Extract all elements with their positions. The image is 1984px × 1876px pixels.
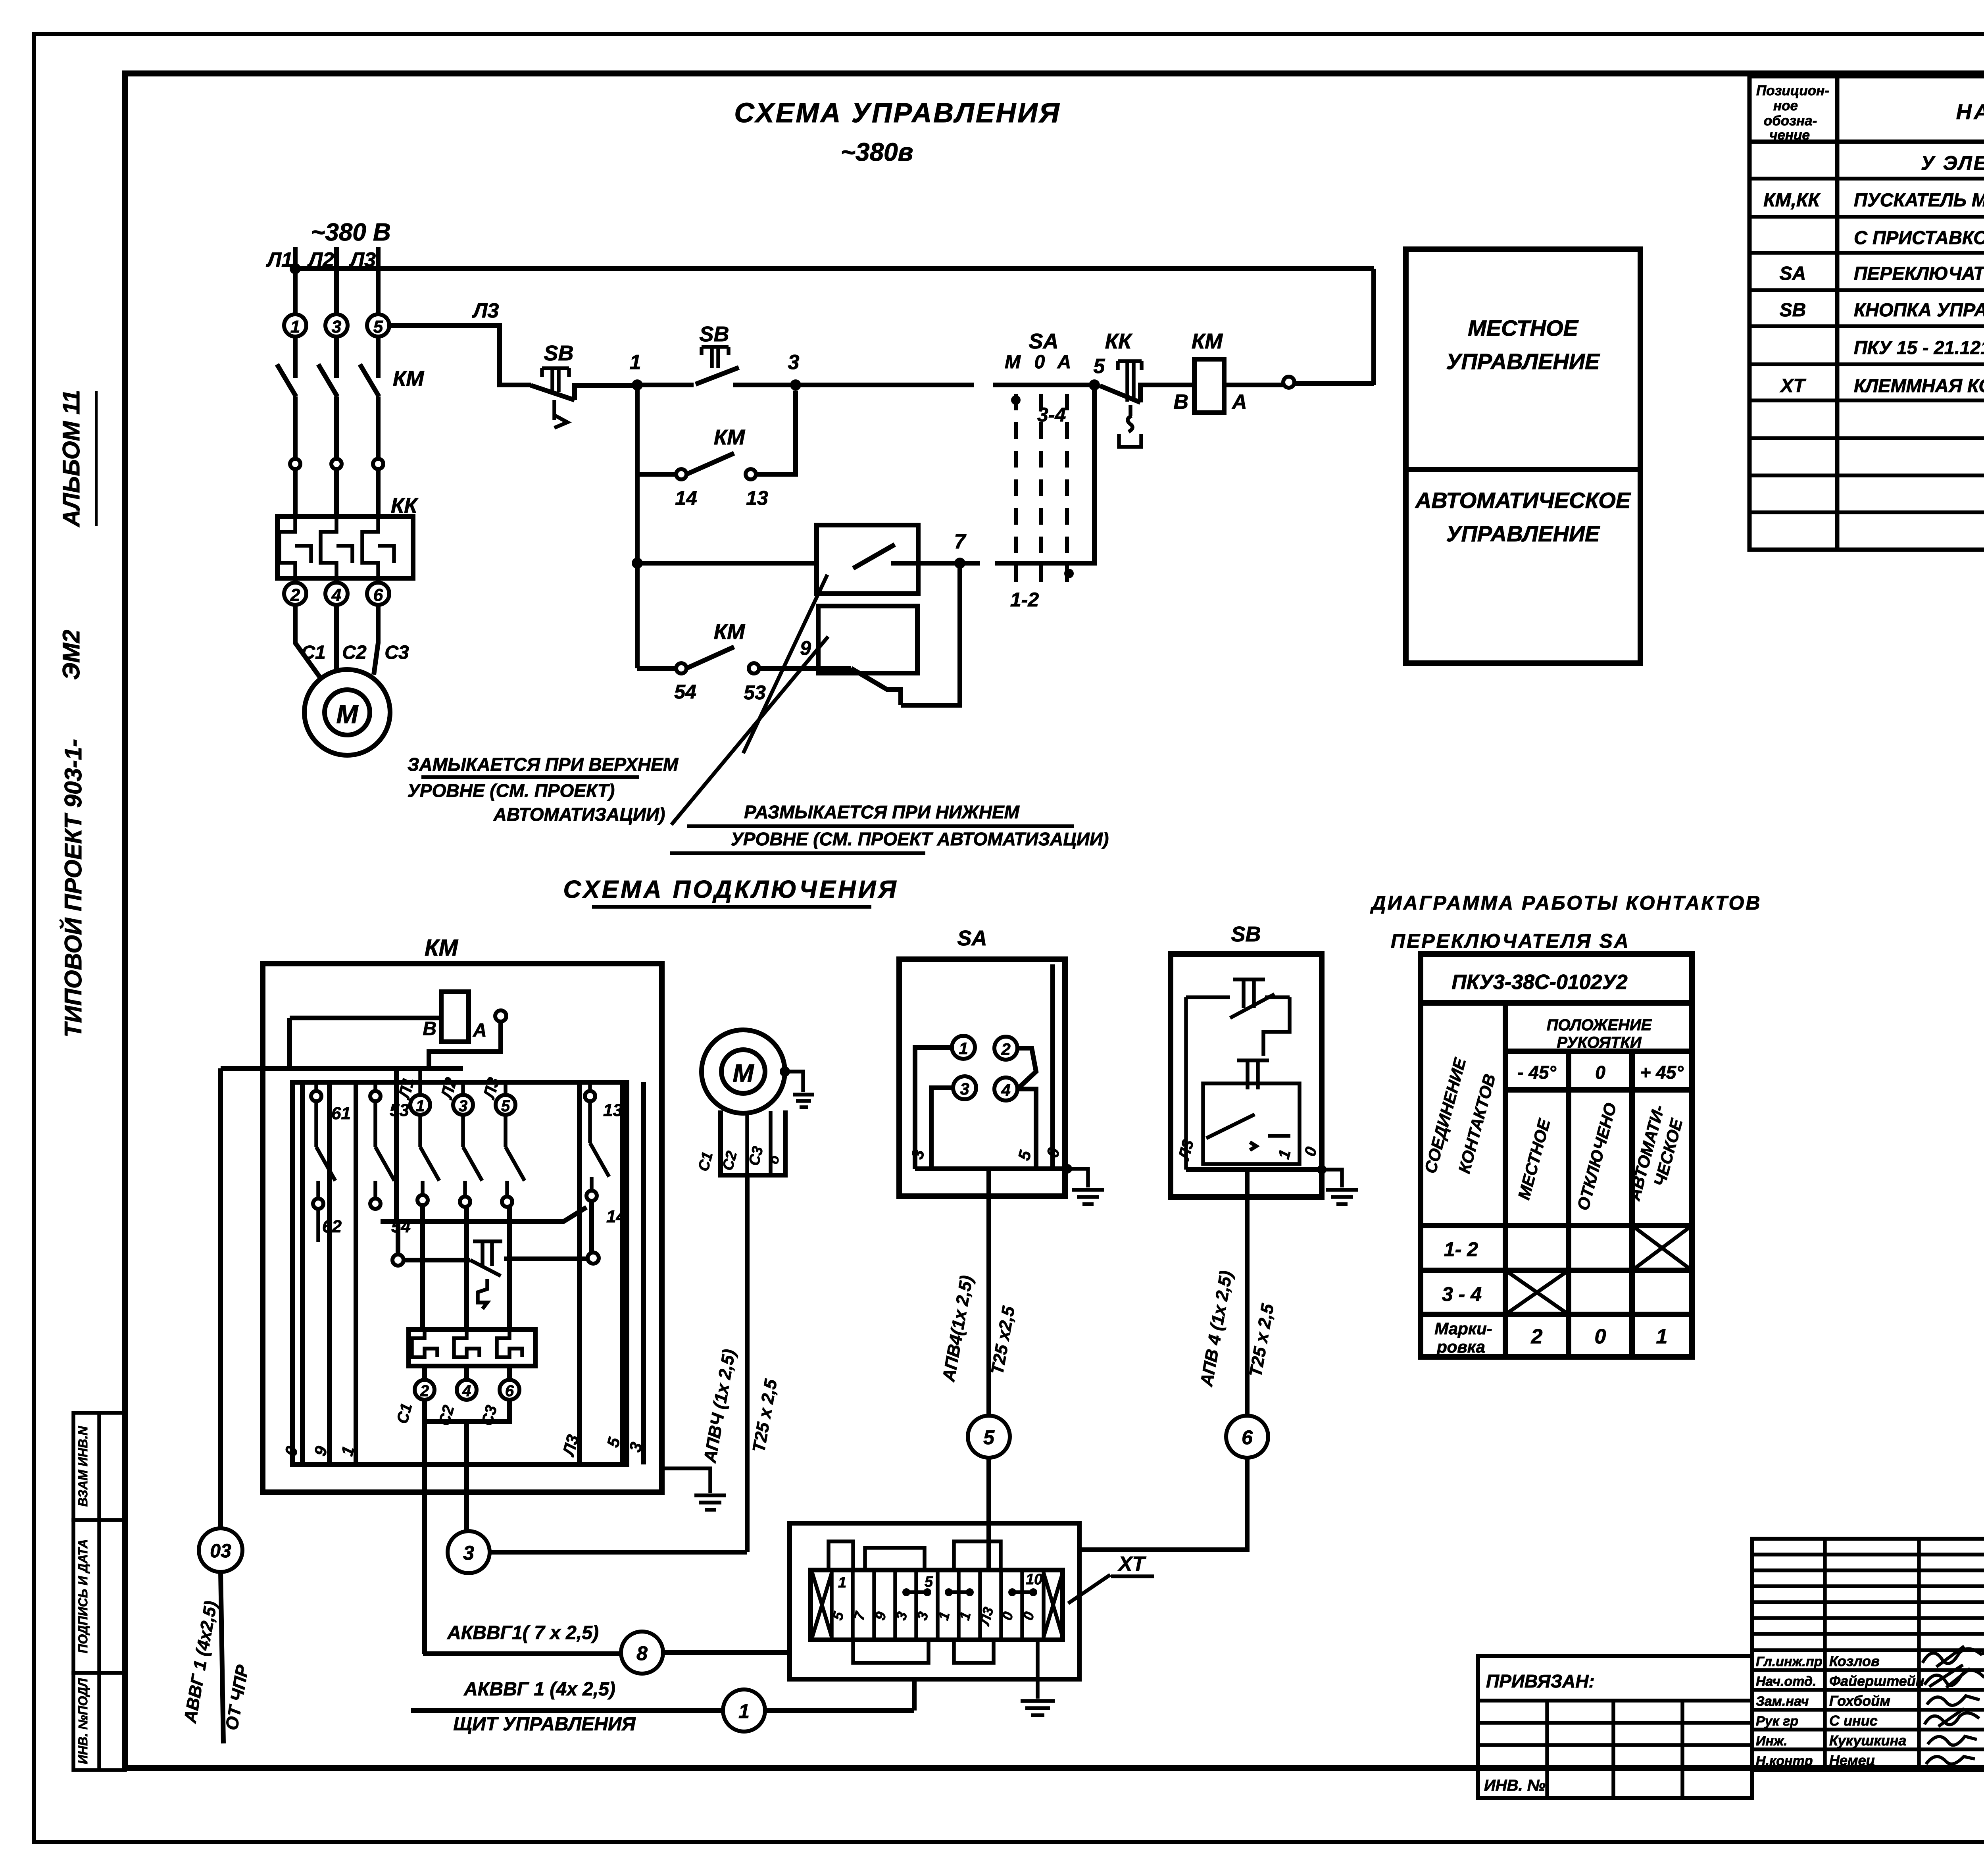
svg-text:5: 5 — [1094, 355, 1105, 378]
svg-text:НАИМЕНОВАНИЕ: НАИМЕНОВАНИЕ — [1956, 100, 1984, 124]
circles 2 4 6 in box — [425, 1366, 509, 1380]
svg-text:А: А — [1231, 391, 1247, 414]
terminal circle 3 — [325, 314, 348, 337]
SB ground — [1317, 1165, 1327, 1174]
wire: top supply bus — [295, 266, 1374, 271]
node 5 — [1089, 379, 1100, 391]
svg-text:2: 2 — [290, 585, 300, 605]
svg-text:Козлов: Козлов — [1829, 1653, 1880, 1669]
svg-text:Л1: Л1 — [265, 248, 293, 271]
svg-text:3: 3 — [788, 351, 800, 374]
svg-text:0: 0 — [1595, 1062, 1605, 1083]
svg-text:1: 1 — [1656, 1325, 1668, 1348]
node 7 — [954, 558, 965, 569]
svg-text:КЛЕММНАЯ КОРОБКА У614А: КЛЕММНАЯ КОРОБКА У614А — [1854, 375, 1984, 396]
svg-text:Инж.: Инж. — [1756, 1734, 1787, 1749]
wire: phase line L1 top — [293, 247, 298, 314]
KM aux contact branch (13-14 holding) — [637, 385, 796, 474]
left terminal columns 0 9 1 — [302, 1082, 356, 1464]
lower contact terminals (open circles) — [290, 459, 300, 469]
svg-text:ТИПОВОЙ ПРОЕКТ 903-1-: ТИПОВОЙ ПРОЕКТ 903-1- — [60, 739, 87, 1037]
svg-text:АКВВГ 1 (4х 2,5): АКВВГ 1 (4х 2,5) — [463, 1679, 615, 1700]
svg-text:SB: SB — [544, 341, 573, 365]
cable 03 drop — [218, 1068, 223, 1528]
wire: phase line L2 top — [334, 247, 339, 314]
SA internal wiring left — [915, 1047, 953, 1169]
branch to float switch (upper level) — [632, 558, 643, 569]
svg-text:03: 03 — [210, 1541, 231, 1562]
svg-text:СХЕМА ПОДКЛЮЧЕНИЯ: СХЕМА ПОДКЛЮЧЕНИЯ — [563, 876, 899, 903]
svg-text:SB: SB — [1780, 300, 1806, 321]
svg-text:2: 2 — [420, 1382, 429, 1400]
svg-text:ПКУ3-38С-0102У2: ПКУ3-38С-0102У2 — [1451, 971, 1627, 994]
svg-text:Гл.инж.пр: Гл.инж.пр — [1756, 1654, 1823, 1669]
float switch box 1 (closes at upper level) — [817, 525, 918, 594]
privyazan annex grid — [1478, 1656, 1752, 1798]
svg-text:SA: SA — [1029, 329, 1058, 353]
SA terminal 2 — [994, 1037, 1017, 1060]
wire SA to circle 5 — [986, 1169, 991, 1416]
svg-text:М: М — [732, 1059, 754, 1087]
svg-text:6: 6 — [505, 1382, 514, 1400]
svg-text:1: 1 — [838, 1574, 846, 1591]
svg-text:МЕСТНОЕ: МЕСТНОЕ — [1468, 316, 1579, 341]
svg-text:ровка: ровка — [1436, 1337, 1485, 1356]
wire from terminal 5 with jog down — [389, 325, 531, 385]
SA switch box outline — [899, 959, 1065, 1196]
contactor KM main contacts (3 poles) — [277, 337, 379, 459]
coil wiring — [221, 1018, 501, 1068]
svg-text:ИНВ. №ПОДЛ: ИНВ. №ПОДЛ — [76, 1678, 90, 1764]
svg-text:У ЭЛЕКТРОДВИГАТЕЛЯ: У ЭЛЕКТРОДВИГАТЕЛЯ — [1921, 152, 1984, 174]
inner contact block frame — [292, 1082, 627, 1464]
svg-text:8: 8 — [636, 1642, 648, 1664]
svg-text:14: 14 — [675, 487, 697, 509]
cable marker circle 3 — [448, 1531, 490, 1573]
box exit wires down — [425, 1422, 467, 1654]
svg-text:13: 13 — [746, 487, 768, 509]
svg-text:ное: ное — [1773, 98, 1798, 114]
svg-text:- 45°: - 45° — [1517, 1062, 1556, 1083]
svg-text:6: 6 — [1242, 1426, 1253, 1449]
svg-text:53: 53 — [390, 1101, 409, 1120]
svg-text:0: 0 — [1034, 352, 1045, 373]
motor M (connection diagram) — [702, 1030, 785, 1113]
svg-text:~380в: ~380в — [841, 138, 913, 166]
svg-text:А: А — [1057, 352, 1071, 373]
svg-text:3: 3 — [960, 1079, 969, 1098]
svg-text:1: 1 — [416, 1097, 425, 1115]
svg-text:Позицион-: Позицион- — [1756, 83, 1829, 98]
svg-text:ХТ: ХТ — [1779, 375, 1806, 396]
svg-text:С2: С2 — [342, 642, 367, 663]
KM aux contact branch (53-54) — [637, 647, 818, 668]
motor terminal strip C1 C2 C3 0 — [721, 1110, 785, 1175]
svg-text:SA: SA — [957, 926, 987, 950]
svg-text:2: 2 — [1001, 1040, 1010, 1058]
svg-text:4: 4 — [1001, 1081, 1010, 1099]
svg-text:ЗАМЫКАЕТСЯ ПРИ ВЕРХНЕМ: ЗАМЫКАЕТСЯ ПРИ ВЕРХНЕМ — [408, 754, 679, 775]
cable marker circle 8 — [621, 1632, 663, 1674]
54-14 link wire — [381, 1207, 586, 1222]
KM coil in box — [441, 992, 469, 1042]
svg-text:13: 13 — [603, 1101, 623, 1120]
callout line to float box 2 — [671, 637, 828, 825]
svg-text:Рук гр: Рук гр — [1756, 1714, 1798, 1729]
svg-text:ВЗАМ ИНВ.N: ВЗАМ ИНВ.N — [76, 1426, 90, 1507]
svg-text:УРОВНЕ (СМ. ПРОЕКТ АВТОМАТИЗАЦ: УРОВНЕ (СМ. ПРОЕКТ АВТОМАТИЗАЦИИ) — [731, 829, 1109, 849]
svg-text:5: 5 — [983, 1426, 995, 1449]
svg-text:~380 В: ~380 В — [311, 219, 391, 246]
svg-text:ПРИВЯЗАН:: ПРИВЯЗАН: — [1486, 1671, 1595, 1691]
svg-text:3-4: 3-4 — [1037, 404, 1066, 426]
svg-text:Кукушкина: Кукушкина — [1829, 1732, 1906, 1749]
svg-text:В: В — [423, 1018, 436, 1039]
svg-text:5: 5 — [373, 317, 383, 337]
svg-text:КНОПКА УПРАВЛЕНИЯ: КНОПКА УПРАВЛЕНИЯ — [1854, 299, 1984, 320]
SA terminal 3 — [953, 1076, 976, 1099]
svg-text:5: 5 — [925, 1574, 933, 1590]
terminal circle 1 — [284, 314, 306, 337]
terminal box XT outline — [790, 1523, 1079, 1679]
jumpers in XT — [902, 1588, 1037, 1596]
svg-text:ХТ: ХТ — [1117, 1553, 1147, 1576]
signature table grid — [1752, 1539, 1984, 1770]
svg-text:10: 10 — [1026, 1571, 1042, 1588]
svg-text:КМ: КМ — [393, 367, 424, 391]
svg-text:КМ: КМ — [1192, 329, 1223, 353]
left stamp boxes — [73, 1413, 125, 1770]
svg-text:0: 0 — [1595, 1325, 1606, 1348]
SB inner block — [1203, 1083, 1300, 1164]
SA ground — [1063, 1164, 1072, 1174]
KK lower terminals circles 2 4 6 — [295, 578, 378, 583]
node 3 — [790, 379, 801, 391]
svg-text:КМ: КМ — [714, 425, 745, 449]
svg-text:1: 1 — [738, 1700, 750, 1722]
svg-text:6: 6 — [373, 585, 383, 605]
svg-text:обозна-: обозна- — [1764, 113, 1817, 129]
wire: phase line L3 top — [376, 247, 381, 314]
contact 13-14 — [585, 1091, 595, 1101]
XT ground — [1021, 1640, 1055, 1715]
svg-text:чение: чение — [1769, 127, 1810, 143]
svg-text:3 - 4: 3 - 4 — [1442, 1283, 1482, 1305]
svg-text:Марки-: Марки- — [1434, 1319, 1492, 1338]
svg-text:С3: С3 — [384, 642, 409, 663]
motor ground — [780, 1066, 790, 1077]
svg-text:+ 45°: + 45° — [1640, 1062, 1684, 1083]
cable marker circle 1 — [723, 1689, 765, 1732]
svg-text:Зам.нач: Зам.нач — [1756, 1694, 1809, 1709]
SA internal wiring right — [1017, 1048, 1036, 1169]
right terminal columns L3 5 3 — [579, 1082, 644, 1464]
svg-text:62: 62 — [322, 1217, 342, 1236]
svg-text:ПУСКАТЕЛЬ МАГНИТНЫЙ ПМЛ-12/0: ПУСКАТЕЛЬ МАГНИТНЫЙ ПМЛ-12/002В — [1854, 189, 1984, 210]
svg-text:61: 61 — [331, 1104, 351, 1123]
wire node3 to SA zone — [796, 383, 1094, 387]
motor cable riser — [745, 1175, 750, 1552]
motor M — [304, 670, 390, 755]
contact 61-62 — [311, 1091, 321, 1101]
node: junction L1/bus — [290, 263, 301, 274]
float switch box 2 (opens at lower level) — [818, 606, 917, 673]
U link under circles — [425, 1400, 509, 1422]
svg-text:С ПРИСТАВКОЙ ПКЛ11: С ПРИСТАВКОЙ ПКЛ11 — [1854, 227, 1984, 248]
ground at KM box — [662, 1468, 726, 1510]
heater block — [409, 1330, 535, 1366]
svg-text:Немец: Немец — [1829, 1752, 1875, 1768]
svg-text:ПЕРЕКЛЮЧАТЕЛЬ ПКУ3-38С-0102У2: ПЕРЕКЛЮЧАТЕЛЬ ПКУ3-38С-0102У2 — [1854, 263, 1984, 284]
cable marker circle 6 — [1226, 1416, 1268, 1458]
main contacts in box — [420, 1115, 525, 1197]
svg-text:ЩИТ УПРАВЛЕНИЯ: ЩИТ УПРАВЛЕНИЯ — [453, 1714, 636, 1735]
svg-text:Н.контр: Н.контр — [1756, 1753, 1813, 1768]
svg-text:ИНВ. №: ИНВ. № — [1484, 1777, 1546, 1794]
svg-text:АЛЬБОМ 11: АЛЬБОМ 11 — [58, 390, 85, 527]
SA terminal 1 — [952, 1036, 975, 1059]
svg-text:КМ: КМ — [425, 935, 459, 961]
svg-text:ПЕРЕКЛЮЧАТЕЛЯ SA: ПЕРЕКЛЮЧАТЕЛЯ SA — [1391, 930, 1630, 952]
svg-text:УПРАВЛЕНИЕ: УПРАВЛЕНИЕ — [1446, 349, 1600, 374]
svg-text:УРОВНЕ (СМ. ПРОЕКТ): УРОВНЕ (СМ. ПРОЕКТ) — [408, 780, 615, 801]
XT terminal strip — [811, 1570, 1063, 1640]
svg-text:ПОЛОЖЕНИЕ: ПОЛОЖЕНИЕ — [1547, 1016, 1652, 1034]
SA contact diagram table grid — [1421, 954, 1692, 1357]
svg-text:КК: КК — [1105, 329, 1133, 353]
svg-text:4: 4 — [331, 585, 341, 605]
svg-text:4: 4 — [462, 1382, 471, 1400]
svg-text:2: 2 — [1531, 1325, 1543, 1348]
SA terminal 4 — [994, 1077, 1017, 1101]
svg-text:ЭМ2: ЭМ2 — [58, 630, 85, 680]
svg-text:7: 7 — [954, 530, 967, 553]
svg-text:14: 14 — [606, 1207, 626, 1226]
node 1 — [632, 379, 643, 391]
svg-text:1- 2: 1- 2 — [1444, 1238, 1478, 1260]
contact 53-54 — [370, 1091, 381, 1101]
svg-text:SB: SB — [1231, 922, 1261, 946]
SA 0-conductor — [1050, 964, 1055, 1169]
coil feed vertical — [394, 1068, 399, 1222]
signatures — [1922, 1646, 1984, 1764]
svg-text:3: 3 — [463, 1542, 474, 1564]
svg-text:1-2: 1-2 — [1010, 589, 1039, 611]
svg-text:54: 54 — [674, 681, 696, 703]
svg-text:С инис: С инис — [1829, 1712, 1878, 1729]
callout line to float box 1 — [743, 575, 827, 753]
SB button box outline — [1171, 954, 1322, 1197]
svg-text:5: 5 — [501, 1097, 510, 1115]
svg-text:РУКОЯТКИ: РУКОЯТКИ — [1557, 1034, 1642, 1051]
SA bottom wire — [915, 1166, 1067, 1171]
svg-text:АВТОМАТИЗАЦИИ): АВТОМАТИЗАЦИИ) — [493, 804, 665, 825]
svg-text:Л3: Л3 — [472, 299, 499, 322]
svg-text:СХЕМА УПРАВЛЕНИЯ: СХЕМА УПРАВЛЕНИЯ — [734, 97, 1061, 128]
svg-text:53: 53 — [744, 681, 766, 704]
svg-text:АВТОМАТИЧЕСКОЕ: АВТОМАТИЧЕСКОЕ — [1415, 488, 1631, 513]
svg-text:1: 1 — [630, 351, 641, 374]
svg-text:9: 9 — [800, 637, 811, 659]
terminal circle 5 — [367, 314, 389, 337]
svg-text:3: 3 — [459, 1097, 467, 1115]
svg-text:М: М — [1005, 352, 1021, 373]
XT cable entries — [829, 1541, 1001, 1663]
svg-text:Гохбойм: Гохбойм — [1829, 1693, 1890, 1709]
svg-text:Файерштейн: Файерштейн — [1829, 1673, 1924, 1689]
svg-text:АКВВГ1( 7 х 2,5): АКВВГ1( 7 х 2,5) — [447, 1622, 599, 1643]
svg-text:1: 1 — [290, 317, 300, 337]
svg-text:А: А — [473, 1020, 487, 1041]
svg-text:3: 3 — [332, 317, 341, 337]
svg-text:РАЗМЫКАЕТСЯ ПРИ НИЖНЕМ: РАЗМЫКАЕТСЯ ПРИ НИЖНЕМ — [744, 802, 1020, 822]
svg-text:ПКУ 15 - 21.121- 54У2: ПКУ 15 - 21.121- 54У2 — [1854, 337, 1984, 358]
svg-text:ПОДПИСЬ И ДАТА: ПОДПИСЬ И ДАТА — [76, 1539, 90, 1653]
wire SB to circle 6 — [1245, 1170, 1250, 1416]
svg-text:М: М — [336, 699, 359, 729]
svg-text:SB: SB — [699, 322, 729, 346]
svg-text:Нач.отд.: Нач.отд. — [1756, 1674, 1816, 1689]
thermal NC contact with terminals — [392, 1255, 404, 1266]
svg-text:В: В — [1173, 391, 1188, 414]
svg-text:1: 1 — [959, 1039, 968, 1058]
parts list table grid — [1749, 76, 1984, 550]
svg-text:УПРАВЛЕНИЕ: УПРАВЛЕНИЕ — [1446, 521, 1600, 546]
cable marker circle 5 — [968, 1416, 1010, 1458]
svg-text:КМ: КМ — [714, 620, 745, 644]
wires into motor — [295, 605, 378, 677]
svg-text:КМ,КК: КМ,КК — [1763, 190, 1821, 211]
X marks in diagram table — [1505, 1226, 1692, 1314]
svg-text:ДИАГРАММА РАБОТЫ КОНТАКТОВ: ДИАГРАММА РАБОТЫ КОНТАКТОВ — [1370, 892, 1762, 914]
svg-text:SA: SA — [1780, 263, 1806, 284]
